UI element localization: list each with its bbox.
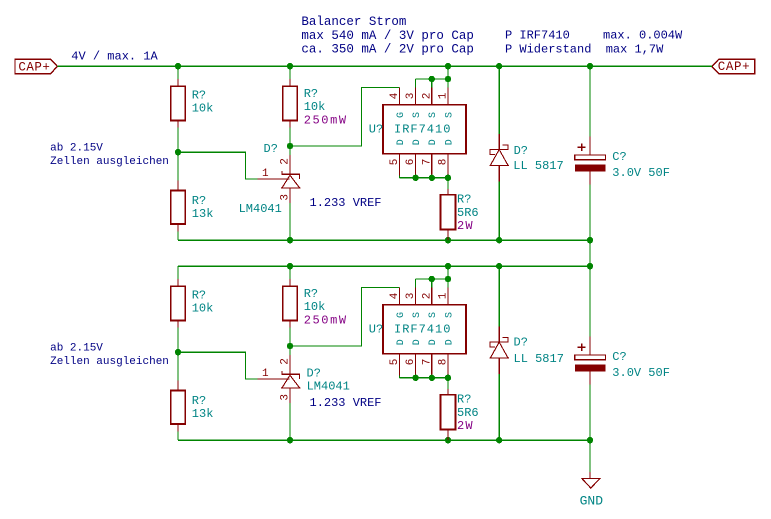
- svg-text:D?: D?: [264, 142, 278, 156]
- capacitor C? 3.0V 50F (section 1): [575, 66, 606, 240]
- svg-text:5: 5: [389, 359, 401, 366]
- svg-text:1: 1: [262, 368, 269, 380]
- svg-text:R?: R?: [192, 288, 206, 302]
- junction s2 top rail at 5R6 column: [445, 263, 451, 269]
- U? top pins 4 3 2 1 (section 1): [399, 88, 448, 105]
- svg-text:10k: 10k: [192, 102, 214, 116]
- svg-text:max 540 mA / 3V pro Cap: max 540 mA / 3V pro Cap: [301, 29, 474, 43]
- resistor R? 10k (divider top, section 2): [171, 266, 186, 352]
- svg-text:1: 1: [262, 168, 269, 180]
- svg-text:IRF7410: IRF7410: [394, 123, 451, 137]
- svg-text:LL 5817: LL 5817: [513, 159, 563, 173]
- junction divider mid node (section 1): [175, 149, 181, 155]
- resistor R? 5R6 2W (section 2): [441, 389, 456, 440]
- wire: GND stub below bottom rail: [589, 440, 591, 472]
- svg-text:C?: C?: [612, 350, 626, 364]
- junction on top rail at R divider column: [175, 63, 181, 69]
- junction s1 bottom rail at 5R6 column: [445, 237, 451, 243]
- svg-text:6: 6: [405, 359, 417, 366]
- pin names G S S S (section 2): [396, 312, 456, 318]
- junction pins tie wire at pin 2 (section 2): [429, 276, 435, 282]
- svg-text:3: 3: [280, 394, 292, 401]
- svg-text:LM4041: LM4041: [307, 380, 350, 394]
- junction drain tie at pin 7 (section 2): [429, 375, 435, 381]
- junction s2 top rail at cap column: [587, 263, 593, 269]
- svg-text:D: D: [412, 339, 423, 345]
- svg-text:D: D: [428, 339, 439, 345]
- wire: mid-node vertical connector between rails (cap column): [589, 240, 591, 266]
- junction s1 bottom rail at schottky column: [496, 237, 502, 243]
- pin names G S S S (section 1): [396, 112, 456, 118]
- global label CAP+ (right): [712, 59, 755, 74]
- U? bottom pins 5 6 7 8 (section 1): [399, 154, 448, 176]
- capacitor plus sign (section 1): [578, 144, 586, 152]
- svg-text:2W: 2W: [457, 219, 474, 233]
- svg-text:4: 4: [389, 292, 401, 299]
- svg-text:GND: GND: [580, 493, 604, 508]
- svg-text:U?: U?: [369, 123, 383, 137]
- svg-text:D?: D?: [514, 336, 528, 350]
- wire: LM cathode node to U? gate pin 4 (section 1): [290, 88, 399, 147]
- svg-text:U?: U?: [369, 323, 383, 337]
- svg-text:P Widerstand: P Widerstand: [505, 42, 591, 56]
- svg-text:D: D: [396, 339, 407, 345]
- svg-text:2: 2: [421, 293, 433, 300]
- resistor R? 10k (divider top, section 1): [171, 66, 186, 152]
- svg-text:max 1,7W: max 1,7W: [606, 42, 664, 56]
- svg-text:D: D: [396, 139, 407, 145]
- junction drain tie at pin 7 (section 1): [429, 175, 435, 181]
- pin numbers U? top 4 3 2 1 (section 2): [389, 292, 450, 299]
- global label CAP+ (left): [15, 59, 57, 74]
- pin numbers U? bottom 5 6 7 8 (section 1): [389, 159, 450, 166]
- junction bottom rail at LM column: [287, 437, 293, 443]
- junction bottom rail at 5R6 column: [445, 437, 451, 443]
- svg-text:250mW: 250mW: [304, 314, 348, 328]
- junction on top rail at schottky column: [496, 63, 502, 69]
- junction bottom rail at schottky column: [496, 437, 502, 443]
- pin numbers U? bottom 5 6 7 8 (section 2): [389, 359, 450, 366]
- junction pins tie wire at pin 2 (section 1): [429, 76, 435, 82]
- pin numbers U? top 4 3 2 1 (section 1): [389, 92, 450, 99]
- svg-text:S: S: [412, 312, 423, 318]
- resistor R? 13k (divider bottom, section 1): [171, 152, 186, 240]
- svg-text:R?: R?: [457, 193, 471, 207]
- wire: section1 bottom rail (mid node): [178, 239, 590, 241]
- svg-text:4: 4: [389, 92, 401, 99]
- svg-text:3: 3: [405, 93, 417, 100]
- wire: U? pins 1-2-3 tie to top rail (section 1): [416, 66, 448, 87]
- wire: divider mid node to LM4041 pin 1 (section 2): [178, 352, 258, 379]
- svg-text:ab 2.15V: ab 2.15V: [50, 342, 103, 354]
- svg-text:R?: R?: [304, 87, 318, 101]
- junction on top rail at 10k/LM column: [287, 63, 293, 69]
- svg-text:7: 7: [421, 159, 433, 166]
- svg-text:G: G: [396, 112, 407, 118]
- svg-text:10k: 10k: [192, 302, 214, 316]
- svg-text:4V / max. 1A: 4V / max. 1A: [71, 50, 158, 64]
- svg-text:D: D: [428, 139, 439, 145]
- svg-text:R?: R?: [457, 393, 471, 407]
- wire: top rail CAP+ net: [57, 65, 712, 67]
- pin names D D D D (section 2): [396, 339, 456, 345]
- svg-text:13k: 13k: [192, 407, 214, 421]
- wire: U? pins 1-2-3 tie to top rail (section 2): [416, 266, 448, 287]
- svg-text:R?: R?: [192, 194, 206, 208]
- capacitor C? 3.0V 50F (section 2): [575, 266, 606, 440]
- svg-text:5R6: 5R6: [457, 406, 479, 420]
- svg-text:S: S: [428, 312, 439, 318]
- svg-text:Balancer Strom: Balancer Strom: [301, 15, 406, 29]
- svg-text:D: D: [412, 139, 423, 145]
- svg-text:ab 2.15V: ab 2.15V: [50, 142, 103, 154]
- shunt reference D? LM4041 (section 2): [258, 346, 301, 440]
- op-amp/MOSFET U? IRF7410 body (section 2): [383, 305, 466, 354]
- svg-text:CAP+: CAP+: [718, 60, 750, 74]
- svg-text:1: 1: [438, 292, 450, 299]
- svg-text:R?: R?: [192, 394, 206, 408]
- svg-text:6: 6: [405, 159, 417, 166]
- junction bottom rail at cap column: [587, 437, 593, 443]
- svg-text:ca. 350 mA / 2V pro Cap: ca. 350 mA / 2V pro Cap: [301, 42, 474, 56]
- svg-text:1.233 VREF: 1.233 VREF: [310, 196, 382, 210]
- junction below 10k 250mW (section 2): [287, 343, 293, 349]
- svg-text:Zellen ausgleichen: Zellen ausgleichen: [50, 356, 169, 368]
- schottky diode D? LL 5817 (section 2): [489, 266, 509, 440]
- junction s1 bottom rail at cap column: [587, 237, 593, 243]
- svg-text:1: 1: [438, 92, 450, 99]
- svg-text:3: 3: [280, 194, 292, 201]
- svg-text:Zellen ausgleichen: Zellen ausgleichen: [50, 156, 169, 168]
- svg-text:2: 2: [280, 158, 292, 165]
- svg-text:LM4041: LM4041: [239, 202, 282, 216]
- svg-text:max. 0.004W: max. 0.004W: [603, 29, 683, 43]
- svg-text:D: D: [444, 139, 455, 145]
- resistor R? 13k (divider bottom, section 2): [171, 352, 186, 440]
- svg-text:10k: 10k: [304, 300, 326, 314]
- op-amp/MOSFET U? IRF7410 body (section 1): [383, 105, 466, 154]
- svg-text:3: 3: [405, 293, 417, 300]
- svg-text:5: 5: [389, 159, 401, 166]
- svg-text:8: 8: [438, 359, 450, 366]
- svg-text:P IRF7410: P IRF7410: [505, 29, 570, 43]
- svg-text:C?: C?: [612, 150, 626, 164]
- U? bottom pins 5 6 7 8 (section 2): [399, 354, 448, 376]
- svg-text:7: 7: [421, 359, 433, 366]
- junction below 10k 250mW (section 1): [287, 143, 293, 149]
- svg-text:2: 2: [421, 93, 433, 100]
- junction on top rail at U? pin1 column: [445, 63, 451, 69]
- svg-text:IRF7410: IRF7410: [394, 323, 451, 337]
- svg-text:5R6: 5R6: [457, 206, 479, 220]
- svg-text:8: 8: [438, 159, 450, 166]
- junction drain tie at pin 8 (section 1): [445, 175, 451, 181]
- resistor R? 5R6 2W (section 1): [441, 189, 456, 240]
- wire: section2 top rail (mid node): [178, 265, 590, 267]
- junction divider mid node (section 2): [175, 349, 181, 355]
- junction drain tie at pin 6 (section 1): [412, 175, 418, 181]
- schottky diode D? LL 5817 (section 1): [489, 66, 509, 240]
- svg-text:R?: R?: [304, 287, 318, 301]
- resistor R? 10k 250mW (section 2): [283, 266, 298, 346]
- svg-text:D: D: [444, 339, 455, 345]
- svg-text:2W: 2W: [457, 419, 474, 433]
- junction s1 bottom rail at LM column: [287, 237, 293, 243]
- svg-text:13k: 13k: [192, 207, 214, 221]
- svg-text:CAP+: CAP+: [18, 60, 50, 74]
- svg-text:S: S: [444, 112, 455, 118]
- svg-text:1.233 VREF: 1.233 VREF: [310, 396, 382, 410]
- svg-text:3.0V 50F: 3.0V 50F: [612, 166, 670, 180]
- svg-text:R?: R?: [192, 88, 206, 102]
- junction pins tie wire at pin 1 (section 2): [445, 276, 451, 282]
- wire: divider mid node to LM4041 pin 1 (section 1): [178, 152, 258, 179]
- svg-text:S: S: [444, 312, 455, 318]
- capacitor plus sign (section 2): [578, 344, 586, 352]
- junction drain tie at pin 6 (section 2): [412, 375, 418, 381]
- svg-text:250mW: 250mW: [304, 114, 348, 128]
- svg-text:3.0V 50F: 3.0V 50F: [612, 366, 670, 380]
- junction on top rail at cap column: [587, 63, 593, 69]
- junction s2 top rail at LM column: [287, 263, 293, 269]
- wire: U? drain pins 5-6-7-8 tie (section 1): [399, 176, 448, 190]
- ground symbol: [582, 472, 600, 488]
- junction drain tie at pin 8 (section 2): [445, 375, 451, 381]
- svg-text:D?: D?: [514, 144, 528, 158]
- resistor R? 10k 250mW (section 1): [283, 66, 298, 146]
- junction pins tie wire at pin 1 (section 1): [445, 76, 451, 82]
- wire: bottom rail (GND net): [178, 439, 590, 441]
- svg-text:10k: 10k: [304, 100, 326, 114]
- svg-text:D?: D?: [307, 366, 321, 380]
- junction s2 top rail at schottky column: [496, 263, 502, 269]
- pin names D D D D (section 1): [396, 139, 456, 145]
- svg-text:G: G: [396, 312, 407, 318]
- svg-text:LL 5817: LL 5817: [514, 352, 564, 366]
- wire: LM cathode node to U? gate pin 4 (section 2): [290, 288, 399, 347]
- svg-text:2: 2: [280, 358, 292, 365]
- U? top pins 4 3 2 1 (section 2): [399, 288, 448, 305]
- wire: U? drain pins 5-6-7-8 tie (section 2): [399, 376, 448, 390]
- shunt reference D? LM4041 (section 1): [258, 146, 301, 240]
- svg-text:S: S: [428, 112, 439, 118]
- svg-text:S: S: [412, 112, 423, 118]
